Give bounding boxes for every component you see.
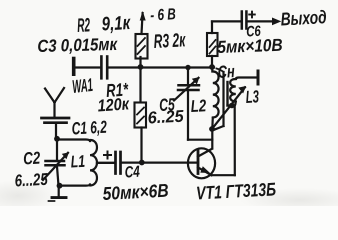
svg-text:С1 6,2: С1 6,2 — [71, 117, 108, 139]
svg-text:6..25: 6..25 — [147, 106, 185, 127]
svg-text:L3: L3 — [245, 88, 260, 108]
svg-text:WA1: WA1 — [71, 76, 93, 98]
svg-text:120к: 120к — [97, 95, 131, 116]
svg-text:Выход: Выход — [280, 7, 327, 30]
svg-text:С6: С6 — [246, 22, 262, 40]
svg-text:Сн: Сн — [217, 62, 235, 82]
svg-text:- 6 В: - 6 В — [150, 4, 176, 24]
svg-text:R3 2к: R3 2к — [153, 30, 186, 53]
svg-text:VT1 ГТ313Б: VT1 ГТ313Б — [196, 180, 277, 204]
svg-text:9,1к: 9,1к — [101, 11, 132, 35]
svg-text:6...25: 6...25 — [14, 170, 48, 191]
svg-text:L1: L1 — [70, 153, 85, 172]
svg-text:С3 0,015мк: С3 0,015мк — [37, 35, 118, 56]
svg-text:L2: L2 — [190, 97, 207, 117]
svg-text:R2: R2 — [77, 15, 91, 37]
svg-text:С4: С4 — [124, 162, 140, 181]
svg-text:С2: С2 — [23, 149, 41, 169]
svg-text:50мк×6В: 50мк×6В — [102, 180, 169, 204]
